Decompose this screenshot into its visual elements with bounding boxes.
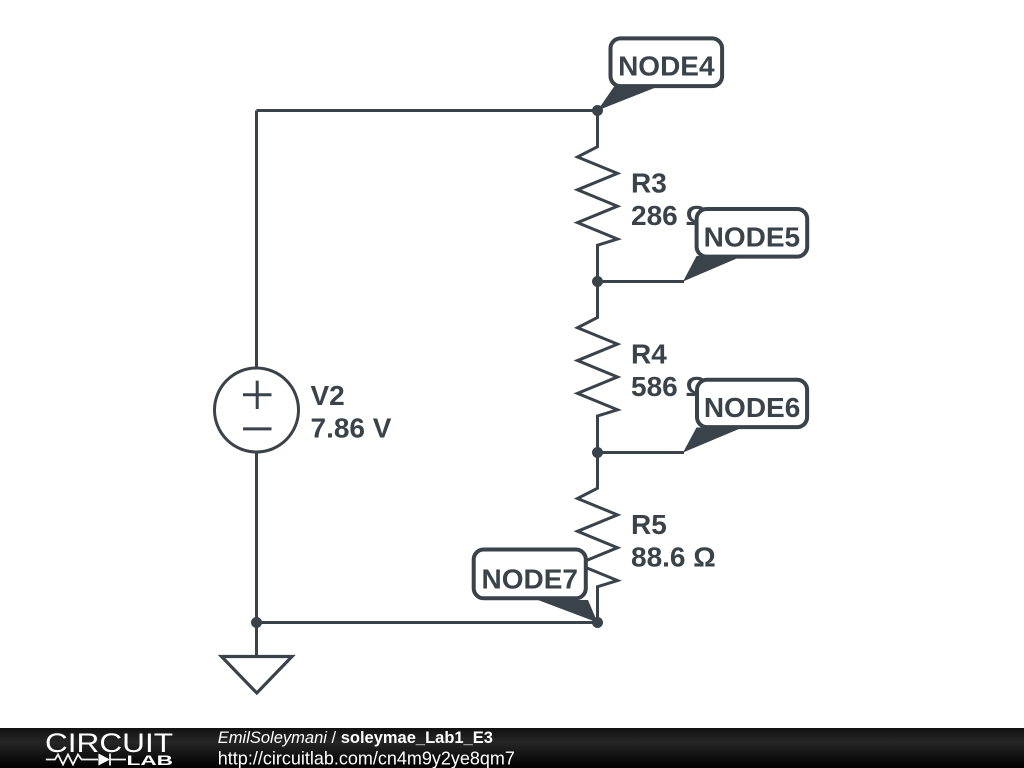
- svg-text:http://circuitlab.com/cn4m9y2y: http://circuitlab.com/cn4m9y2ye8qm7: [218, 749, 515, 768]
- node NODE7 callout: [474, 550, 598, 623]
- svg-text:R4: R4: [631, 339, 667, 370]
- wire stub node6: [598, 451, 685, 454]
- node NODE5 callout: [683, 209, 807, 282]
- svg-text:7.86 V: 7.86 V: [311, 413, 392, 444]
- svg-text:R5: R5: [631, 509, 667, 540]
- junction node5 dot: [592, 276, 603, 287]
- node NODE6 callout: [683, 380, 807, 453]
- logo diode glyph: [98, 754, 110, 766]
- svg-text:NODE4: NODE4: [618, 50, 715, 81]
- ground: [222, 623, 293, 694]
- resistor R5: [578, 453, 618, 623]
- voltage source V2: [215, 368, 299, 452]
- svg-text:NODE7: NODE7: [482, 564, 578, 595]
- svg-text:LAB: LAB: [127, 752, 174, 768]
- wire left upper (V2 top lead): [255, 111, 258, 370]
- svg-text:R3: R3: [631, 168, 667, 199]
- junction node7 dot: [592, 617, 603, 628]
- junction ground dot: [251, 617, 262, 628]
- wire top from V2 to node4: [257, 109, 598, 112]
- wire bottom: [257, 621, 598, 624]
- node NODE4 callout: [598, 38, 723, 110]
- svg-text:V2: V2: [311, 380, 345, 411]
- svg-text:NODE6: NODE6: [704, 392, 800, 423]
- wire stub node5: [598, 280, 685, 283]
- svg-text:88.6 Ω: 88.6 Ω: [631, 542, 716, 573]
- junction node4 dot: [592, 105, 603, 116]
- svg-text:EmilSoleymani / soleymae_Lab1_: EmilSoleymani / soleymae_Lab1_E3: [218, 729, 493, 747]
- wire left lower (V2 bottom lead): [255, 452, 258, 623]
- footer bar: [0, 728, 1024, 768]
- svg-text:NODE5: NODE5: [704, 221, 800, 252]
- logo resistor glyph: [46, 755, 98, 765]
- resistor R3: [578, 111, 618, 282]
- junction node6 dot: [592, 447, 603, 458]
- resistor R4: [578, 282, 618, 453]
